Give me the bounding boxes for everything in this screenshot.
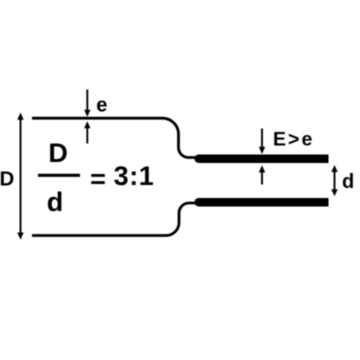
svg-text:E: E — [273, 129, 286, 151]
arrow e top — [84, 90, 90, 117]
arrow E top — [259, 129, 265, 155]
svg-text:e: e — [302, 129, 313, 151]
svg-text:d: d — [342, 171, 354, 193]
formula fraction bar — [38, 174, 80, 177]
label E > e — [273, 129, 313, 151]
svg-text:3: 3 — [114, 161, 129, 191]
svg-text::: : — [129, 161, 138, 191]
svg-text:D: D — [48, 138, 68, 168]
arrow e bottom — [84, 121, 90, 143]
svg-text:1: 1 — [139, 161, 154, 191]
dimension arrow D (left) — [17, 113, 23, 240]
svg-text:e: e — [96, 95, 107, 117]
top wall bar of shrunk tube — [194, 155, 328, 164]
dimension arrow d (right) — [331, 165, 337, 196]
svg-text:=: = — [90, 164, 106, 194]
svg-text:d: d — [47, 187, 64, 217]
bottom wall bar of shrunk tube — [194, 198, 328, 207]
svg-text:D: D — [0, 168, 14, 191]
arrow E bottom — [259, 165, 265, 184]
top wall line of expanded tube — [32, 118, 200, 157]
svg-text:>: > — [288, 129, 299, 151]
bottom wall line of expanded tube — [32, 203, 200, 236]
